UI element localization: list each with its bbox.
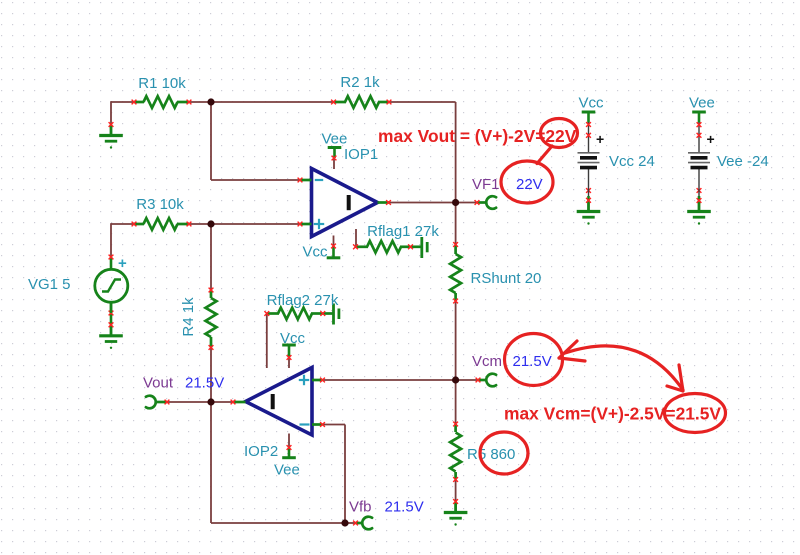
wire: ground to R1 left [111, 101, 134, 103]
op-amp U IOP1 [298, 169, 391, 237]
pin Vcm [476, 374, 497, 387]
svg-text:R2 1k: R2 1k [340, 74, 380, 91]
wire: ground2 / R3 left riser [111, 223, 134, 225]
node Vfb junction [341, 519, 348, 526]
wire: IOP2 non-inverting input to Vcm node [323, 379, 456, 381]
svg-text:Vcc 24: Vcc 24 [609, 153, 655, 170]
svg-text:21.5V: 21.5V [385, 499, 424, 516]
wire: R2 right to corner and down to VF1 node [389, 101, 456, 103]
wire: RShunt bottom to Vcm node [455, 301, 457, 380]
resistor Rflag2 27k [264, 308, 333, 320]
ground (R1 left) [99, 125, 123, 149]
ground (R5 bottom) [444, 502, 468, 526]
wire: IOP1 Vcc pin stub [333, 236, 335, 247]
pin Vfb [353, 517, 372, 530]
annotation: circle around R5 860 [480, 432, 528, 474]
resistor R2 1k [331, 96, 391, 108]
wire: Vout node down to feedback row [210, 402, 212, 523]
svg-text:Rflag2 27k: Rflag2 27k [267, 292, 339, 309]
wire: R5 bottom to ground [455, 480, 457, 502]
svg-text:Vee: Vee [689, 95, 715, 112]
jumper at Rflag1 right [422, 237, 427, 258]
svg-text:+: + [118, 255, 127, 272]
svg-text:21.5V: 21.5V [185, 375, 224, 392]
svg-text:+: + [596, 131, 604, 147]
svg-text:max Vcm=(V+)-2.5V=21.5V: max Vcm=(V+)-2.5V=21.5V [504, 404, 721, 424]
ground (Vcc battery) [587, 196, 590, 201]
wire: Vcm node down to R5 top [455, 380, 457, 424]
wire: Rflag2 left terminal drop to IOP2 [266, 314, 268, 369]
power Vee terminal (IOP2 bottom) [282, 448, 296, 458]
node B junction (R3/R4/non-inverting) [207, 220, 214, 227]
resistor RShunt 20 (vertical) [450, 242, 461, 303]
node VF1 junction [452, 199, 459, 206]
svg-text:Vcm: Vcm [472, 353, 502, 370]
jumper at Rflag2 right [334, 304, 339, 325]
annotation: circle around Vcm 21.5V [505, 334, 563, 386]
resistor R3 10k [132, 218, 192, 230]
wire: IOP1 output to VF1 node [389, 202, 456, 204]
wire: IOP1 Vee pin stub [333, 158, 335, 169]
annotation: ellipse around 22V in text [541, 119, 578, 148]
node Vout junction [207, 398, 214, 405]
power Vee terminal (IOP1 top) [328, 148, 342, 159]
svg-text:VF1: VF1 [472, 176, 500, 193]
svg-text:22V: 22V [516, 176, 543, 193]
svg-text:Vcc: Vcc [579, 95, 605, 112]
wire: IOP2 Vcc pin stub [288, 358, 290, 369]
annotation: connector line to circle [537, 146, 552, 164]
wire: R4 bottom to Vout node [210, 348, 212, 403]
resistor R4 1k (vertical) [206, 288, 217, 350]
wire: node B down to R4 top [210, 224, 212, 290]
svg-text:IOP1: IOP1 [344, 146, 378, 163]
battery Vee -24 [688, 112, 715, 196]
annotation: ellipse around 21.5V in text [665, 394, 726, 433]
ground (Vee battery) [698, 196, 701, 201]
pin VF1 [475, 196, 497, 209]
svg-text:Vcc: Vcc [303, 244, 329, 261]
wire: IOP2 Vee pin stub [288, 434, 290, 448]
svg-text:21.5V: 21.5V [513, 353, 552, 370]
wire: IOP2 inverting input over and down to Vfb node [323, 424, 346, 426]
voltage source VG1 [95, 255, 128, 313]
resistor R5 860 (vertical) [450, 422, 461, 482]
svg-text:Vee -24: Vee -24 [717, 153, 769, 170]
svg-text:R3 10k: R3 10k [136, 196, 184, 213]
wire: Vout pin to IOP2 output [167, 401, 233, 403]
svg-text:Vfb: Vfb [349, 499, 372, 516]
svg-text:Vout: Vout [143, 375, 174, 392]
svg-text:+: + [707, 131, 715, 147]
wire: VF1 node to VF1 pin [456, 202, 477, 204]
svg-text:Vee: Vee [322, 131, 348, 148]
wire: Rflag1 left terminal stub [355, 229, 357, 247]
svg-text:R1 10k: R1 10k [138, 75, 186, 92]
wire: R3 right through node B to IOP1 non-inverting input [189, 223, 300, 225]
node A junction (R1/R2/inverting) [207, 98, 214, 105]
svg-text:R5 860: R5 860 [467, 446, 515, 463]
resistor Rflag1 27k [353, 241, 422, 253]
annotation: circle around VF1 22V [501, 161, 553, 203]
power Vcc terminal (IOP2 top) [282, 345, 296, 358]
svg-text:Vcc: Vcc [280, 330, 306, 347]
wire: R1 right through node to R2 left [189, 101, 334, 103]
wire: Vcm node to Vcm pin [456, 379, 478, 381]
resistor R1 10k [132, 96, 192, 108]
svg-text:Vee: Vee [274, 462, 300, 479]
svg-text:IOP2: IOP2 [244, 443, 278, 460]
wire: node A down to IOP1 inverting input [210, 102, 212, 180]
svg-text:R4 1k: R4 1k [180, 297, 197, 337]
battery Vcc 24 [578, 112, 605, 196]
ground (VG1 bottom) [110, 302, 113, 325]
svg-text:VG1 5: VG1 5 [28, 276, 71, 293]
wire: Vfb node to Vfb pin [345, 522, 356, 524]
op-amp U IOP2 (mirrored) [231, 368, 325, 436]
pin Vout [146, 396, 170, 409]
annotation: curved arrow [565, 346, 683, 390]
power Vcc terminal (IOP1 bottom) [327, 246, 341, 258]
svg-text:Rflag1 27k: Rflag1 27k [367, 223, 439, 240]
node Vcm junction [452, 376, 459, 383]
svg-text:RShunt 20: RShunt 20 [471, 270, 542, 287]
